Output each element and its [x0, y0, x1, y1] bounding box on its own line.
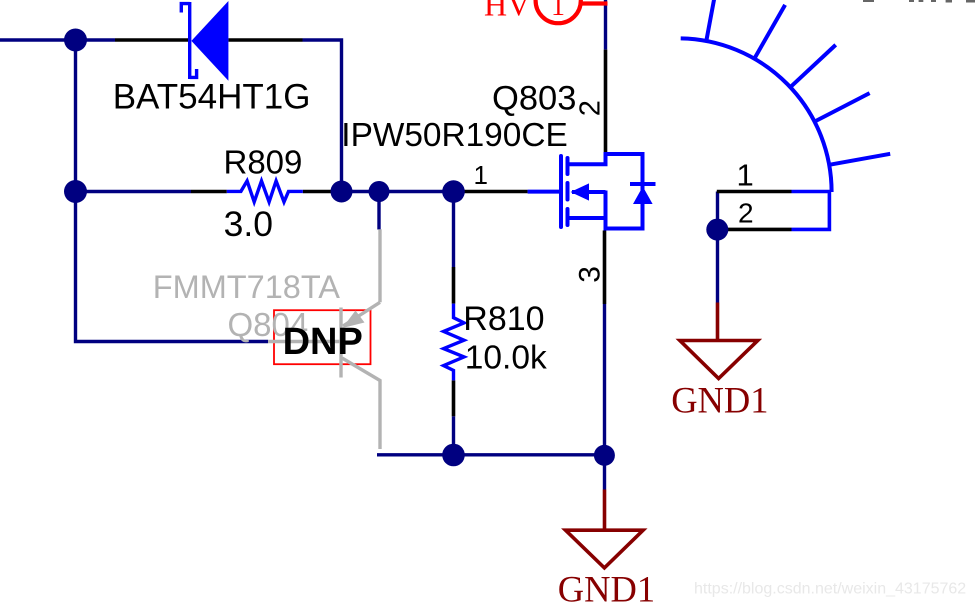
- svg-text:BAT54HT1G: BAT54HT1G: [113, 78, 311, 117]
- svg-text:1: 1: [737, 158, 754, 193]
- svg-text:1: 1: [474, 160, 488, 190]
- svg-text:https://blog.csdn.net/weixin_4: https://blog.csdn.net/weixin_43175762: [694, 581, 966, 598]
- svg-text:10.0k: 10.0k: [465, 340, 547, 377]
- svg-text:GND1: GND1: [558, 569, 655, 606]
- svg-text:FMMT718TA: FMMT718TA: [153, 269, 341, 305]
- svg-text:Q803: Q803: [492, 80, 576, 118]
- svg-text:GND1: GND1: [671, 380, 768, 421]
- svg-text:R809: R809: [224, 144, 303, 181]
- svg-text:R810: R810: [463, 300, 544, 338]
- svg-text:3: 3: [574, 266, 607, 283]
- svg-text:IPW50R190CE: IPW50R190CE: [341, 117, 567, 154]
- svg-text:2: 2: [574, 100, 606, 116]
- svg-text:1: 1: [551, 0, 565, 22]
- svg-text:3.0: 3.0: [224, 204, 273, 244]
- svg-text:HV: HV: [484, 0, 530, 23]
- svg-text:DNP: DNP: [283, 321, 363, 363]
- svg-text:2: 2: [738, 198, 754, 229]
